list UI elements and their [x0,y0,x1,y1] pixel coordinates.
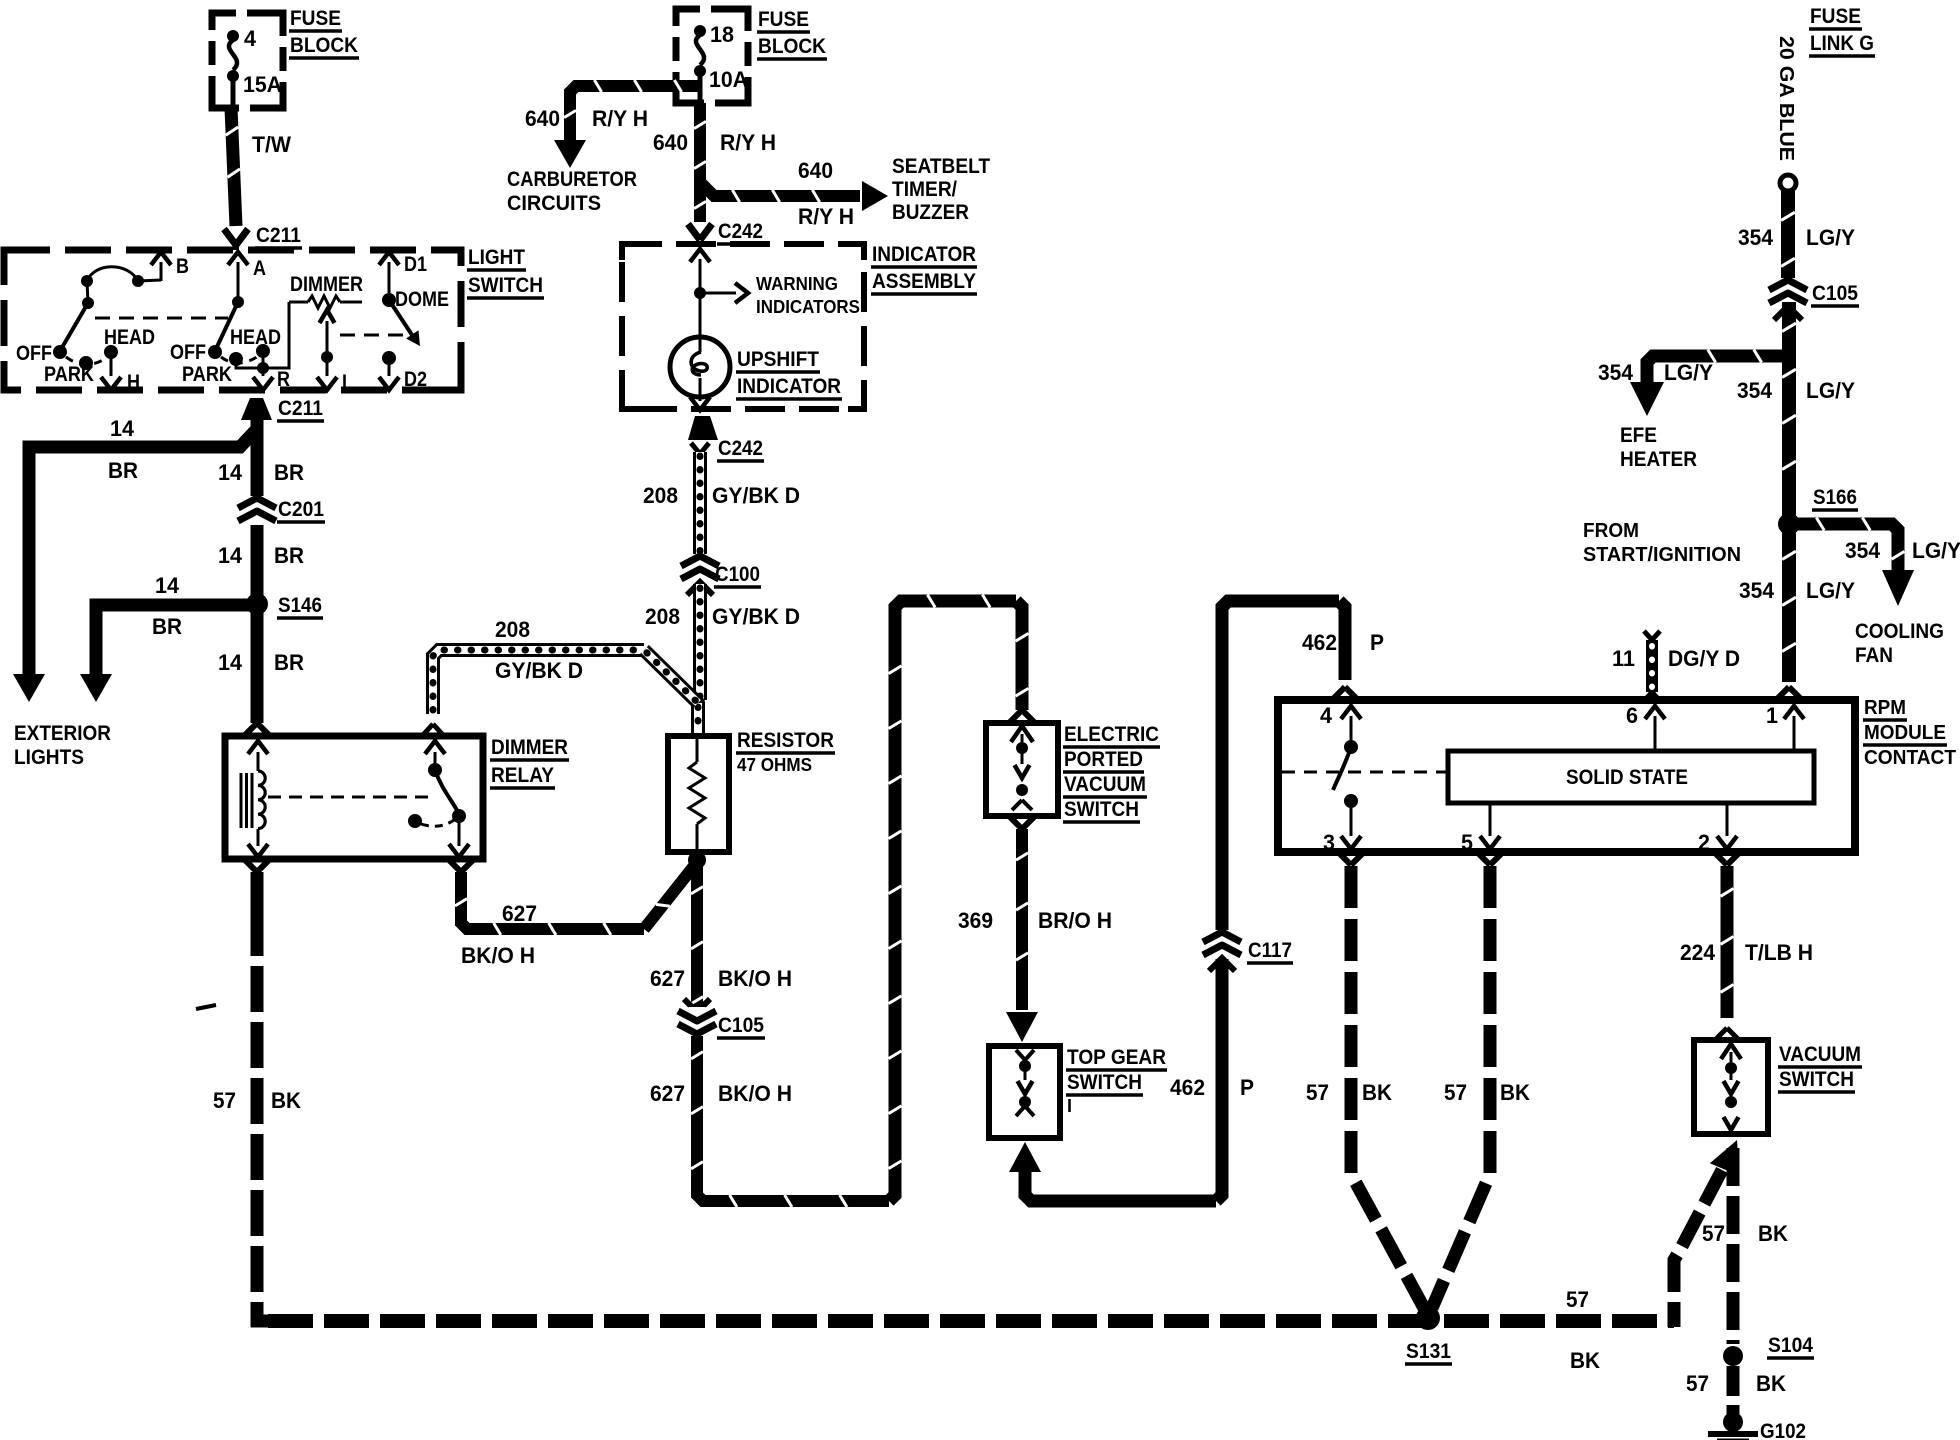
svg-text:C100: C100 [715,562,760,586]
contact HEAD 1 [104,345,118,359]
svg-text:LINK G: LINK G [1810,31,1874,55]
svg-text:GY/BK D: GY/BK D [712,483,800,508]
dashed contact arc 1 [66,357,108,365]
wire 57 BK pin5 [1432,866,1490,1308]
svg-text:BK: BK [1570,1348,1600,1373]
module pin 4 [1341,706,1361,719]
terminal B arrow [151,252,171,265]
electric ported vacuum switch (box) [986,723,1058,816]
module pin 1 [1784,706,1804,719]
svg-text:57: 57 [1444,1080,1467,1105]
wire 57 BK bottom run [251,1315,268,1328]
top gear switch (box) [989,1046,1060,1138]
wire 354 LG/Y lower [1782,530,1796,682]
module pin 3 [1350,801,1353,836]
svg-text:BK/O H: BK/O H [718,966,792,991]
junction at resistor bottom [688,851,706,869]
dimmer rheostat [289,301,308,304]
svg-text:627: 627 [502,901,537,926]
svg-text:6: 6 [1626,703,1638,728]
svg-text:FAN: FAN [1855,643,1893,667]
svg-text:LG/Y: LG/Y [1664,360,1713,385]
svg-text:BR: BR [274,650,304,675]
relay coil pin bottom [257,829,260,846]
relay switch pin top [425,741,445,754]
wire 208 GY/BK D branch [433,650,644,714]
svg-text:BLOCK: BLOCK [290,33,358,57]
svg-text:C211: C211 [278,396,323,420]
flare below module pin 2 [1715,853,1727,865]
fuse block 1 (dashed box) [212,13,283,108]
svg-text:BUZZER: BUZZER [892,200,969,224]
svg-text:INDICATOR: INDICATOR [737,374,841,398]
relay switch contact [452,809,466,823]
arrow below vacuum switch [1710,1140,1740,1176]
contact OFF 1 [53,345,67,359]
svg-text:VACUUM: VACUUM [1779,1042,1861,1066]
svg-text:DIMMER: DIMMER [491,735,568,759]
svg-text:C242: C242 [718,436,763,460]
svg-text:354: 354 [1738,225,1774,250]
svg-text:S104: S104 [1768,1333,1813,1357]
svg-text:11: 11 [1612,646,1635,671]
svg-text:FUSE: FUSE [290,6,341,30]
svg-text:LG/Y: LG/Y [1806,378,1855,403]
svg-text:57: 57 [1306,1080,1329,1105]
svg-text:BR/O H: BR/O H [1038,908,1112,933]
flare below module pin 3 [1339,853,1351,865]
svg-text:P: P [1240,1075,1254,1100]
light switch (dashed box) [4,250,461,390]
switch blade 1 [60,303,88,351]
svg-text:WARNING: WARNING [756,274,838,294]
svg-text:462: 462 [1170,1075,1205,1100]
flare below dimmer relay pin [245,860,257,872]
svg-text:208: 208 [643,483,678,508]
svg-text:T/W: T/W [252,132,291,157]
svg-text:ASSEMBLY: ASSEMBLY [872,269,976,293]
svg-text:PARK: PARK [182,363,232,386]
svg-text:C211: C211 [256,223,301,247]
svg-text:RESISTOR: RESISTOR [737,728,834,752]
contact HEAD 2 [256,344,270,358]
svg-text:P: P [1370,630,1384,655]
terminal A arrow [228,252,248,265]
svg-text:C242: C242 [718,219,763,243]
wire 627 to EPVS [889,601,1016,1201]
arrow EFE heater [1630,382,1664,416]
svg-text:SWITCH: SWITCH [468,273,543,297]
svg-text:BR: BR [108,458,138,483]
terminal D2 [382,351,396,365]
svg-text:LG/Y: LG/Y [1912,538,1960,563]
svg-text:15A: 15A [243,72,282,97]
module dashed link [1282,771,1448,774]
connector C100 [690,554,710,583]
branch to exterior lights 1 [29,430,256,676]
svg-text:FUSE: FUSE [758,7,809,31]
wire 462 P [1025,1168,1216,1201]
svg-text:3: 3 [1323,830,1335,855]
svg-text:S131: S131 [1406,1339,1451,1363]
svg-text:T/LB H: T/LB H [1745,940,1813,965]
module pin 6 [1645,706,1665,719]
svg-text:2: 2 [1698,830,1710,855]
arrow into top gear switch bottom [1009,1142,1041,1172]
wire 208 into resistor [691,703,705,733]
svg-text:208: 208 [495,617,530,642]
svg-text:R/Y H: R/Y H [798,204,854,229]
svg-text:462: 462 [1302,630,1337,655]
svg-text:14: 14 [218,650,243,675]
svg-text:14: 14 [218,460,243,485]
wire 354 LG/Y mid [1782,302,1796,518]
svg-text:14: 14 [218,543,243,568]
wire 640 branch carburetor [570,86,700,142]
svg-text:BK/O H: BK/O H [461,943,535,968]
svg-text:640: 640 [653,130,688,155]
module switch contact [1344,794,1358,808]
svg-text:BR: BR [274,543,304,568]
svg-text:MODULE: MODULE [1864,722,1946,744]
arrow cooling fan [1882,570,1914,606]
arrow exterior lights 1 [13,674,45,702]
svg-text:PORTED: PORTED [1064,747,1143,771]
fuse block 2 (dashed box) [676,9,748,103]
solid state (box) [1448,751,1814,803]
svg-text:14: 14 [110,416,135,441]
svg-text:FUSE: FUSE [1810,4,1861,28]
resistor (box) [668,736,729,852]
svg-text:14: 14 [155,573,180,598]
svg-text:354: 354 [1845,538,1881,563]
wire 208 GY/BK D lower [693,584,707,700]
svg-text:354: 354 [1737,378,1773,403]
wire 640 main [694,103,706,222]
flare into RPM module pin 1 [1777,687,1789,699]
switch blade 1 pivot [82,297,94,309]
svg-text:18: 18 [710,22,734,47]
splice S131 [1416,1306,1440,1330]
svg-text:TIMER/: TIMER/ [892,177,957,201]
park feed line to dimmer [236,302,289,368]
vacuum switch internals [1721,1044,1741,1059]
splice S104 [1723,1346,1743,1366]
flare into RPM module pin 4 [1333,687,1345,699]
svg-text:CONTACT: CONTACT [1864,747,1956,769]
connector C211 top [224,229,236,245]
branch cooling fan [1795,524,1898,570]
battery feed curve B1 [81,275,93,287]
flare top of 208 wire [691,443,700,454]
svg-text:4: 4 [244,26,257,51]
svg-text:HEAD: HEAD [104,326,155,349]
svg-text:57: 57 [1702,1221,1725,1246]
connector C105 on 627 [684,999,710,1012]
svg-text:BK: BK [1500,1080,1530,1105]
svg-text:BR: BR [152,614,182,639]
wire 354 LG/Y upper [1781,191,1795,280]
wire 11 DG/Y D [1646,640,1658,692]
svg-text:OFF: OFF [170,341,206,364]
svg-text:C105: C105 [718,1013,764,1037]
contact PARK 2 [229,352,243,366]
svg-text:UPSHIFT: UPSHIFT [737,347,819,371]
wire 208 GY/BK D upper [693,452,707,556]
svg-text:CARBURETOR: CARBURETOR [507,167,637,191]
svg-text:H: H [127,371,140,394]
svg-text:CIRCUITS: CIRCUITS [507,191,601,215]
svg-text:208: 208 [645,604,680,629]
svg-text:G102: G102 [1760,1419,1806,1440]
svg-text:ELECTRIC: ELECTRIC [1064,722,1159,746]
svg-text:FROM: FROM [1583,520,1639,542]
svg-text:20 GA BLUE: 20 GA BLUE [1775,36,1797,161]
svg-text:BK/O H: BK/O H [718,1081,792,1106]
relay contact dashed arc [421,820,454,826]
svg-text:SOLID STATE: SOLID STATE [1566,765,1688,789]
flare below module pin 5 [1478,853,1490,865]
lamp wire upper [699,293,702,352]
terminal I wiper [320,310,335,323]
svg-text:S146: S146 [278,593,322,617]
ground G102 [1723,1412,1743,1432]
EPVS internals [1011,726,1033,742]
wire 57 BK to S104 [1727,1148,1740,1344]
svg-text:I: I [1067,1096,1072,1116]
wire 57 BK diagonal [1674,1170,1722,1327]
svg-text:LIGHTS: LIGHTS [14,745,84,769]
svg-text:R: R [277,368,290,391]
svg-text:LIGHT: LIGHT [468,245,525,269]
wire 627 BK/O H down [697,860,889,1201]
flare below dimmer relay switch pin [449,860,461,872]
resistor element [696,736,699,762]
svg-text:BK: BK [1362,1080,1392,1105]
wire 977 T/W [231,108,236,226]
svg-text:C117: C117 [1248,938,1292,962]
fuse link terminal [1780,175,1796,191]
svg-text:354: 354 [1739,578,1775,603]
svg-text:1: 1 [1766,703,1778,728]
svg-text:BLOCK: BLOCK [758,34,826,58]
svg-text:369: 369 [958,908,993,933]
arrow exterior lights 2 [80,674,112,702]
svg-text:SWITCH: SWITCH [1067,1070,1142,1094]
rpm module (box) [1278,700,1855,852]
relay coil pin top [248,741,268,754]
stray mark [196,1005,216,1009]
terminal D1 arrow [379,252,399,265]
svg-text:57: 57 [213,1088,236,1113]
svg-text:LG/Y: LG/Y [1806,225,1855,250]
arrow seatbelt [862,181,888,211]
module pin 5 [1489,803,1492,836]
mechanical link dashed [95,317,228,320]
svg-text:TOP GEAR: TOP GEAR [1067,1045,1166,1069]
svg-text:EXTERIOR: EXTERIOR [14,721,111,745]
svg-text:BK: BK [271,1088,301,1113]
svg-text:PARK: PARK [44,363,94,386]
module switch pivot [1344,740,1358,754]
vacuum switch (box) [1694,1040,1768,1134]
svg-text:R/Y H: R/Y H [720,130,776,155]
flare into vacuum switch [1716,1028,1727,1039]
arrow carburetor [554,140,586,168]
fuse F4 15A symbol [227,30,239,42]
connector C242 bottom [688,416,718,440]
svg-text:C201: C201 [278,497,324,521]
svg-text:4: 4 [1320,703,1333,728]
contact DOME [382,293,396,307]
flare into EPVS [1010,710,1022,722]
svg-text:627: 627 [650,966,685,991]
svg-text:EFE: EFE [1620,423,1657,447]
splice S146 [246,593,268,615]
svg-text:57: 57 [1566,1287,1589,1312]
flare into dimmer relay switch pin [423,724,433,735]
svg-text:SWITCH: SWITCH [1779,1067,1854,1091]
svg-text:354: 354 [1598,360,1634,385]
svg-text:627: 627 [650,1081,685,1106]
connector C211 bottom [241,398,272,420]
svg-text:5: 5 [1461,830,1473,855]
fuse F18 10A symbol [694,25,706,37]
relay switch pivot [428,763,442,777]
svg-text:GY/BK D: GY/BK D [495,658,583,683]
wire 627 BK/O H riser [461,872,644,929]
connector C242 top [688,224,700,240]
wire 57 BK to ground [1727,1366,1740,1414]
branch to exterior lights 2 [96,605,251,676]
svg-text:47 OHMS: 47 OHMS [737,755,812,775]
module switch blade [1333,747,1351,790]
svg-text:10A: 10A [709,67,748,92]
splice S166 [1778,513,1800,535]
svg-text:DIMMER: DIMMER [290,273,363,296]
lamp wire lower [699,378,702,401]
module pin 2 [1726,803,1729,836]
svg-text:BR: BR [274,460,304,485]
svg-text:HEAD: HEAD [230,326,281,349]
svg-text:COOLING: COOLING [1855,619,1944,643]
svg-text:I: I [342,371,347,394]
wire 57 BK left vertical [251,872,264,910]
contact PARK 1 [79,356,93,370]
upshift indicator lamp [670,337,730,397]
wire 369 BR/O H [1016,829,1028,1010]
connector C117 [1214,930,1231,959]
terminal R [262,351,265,368]
flare below EPVS [1010,817,1022,829]
svg-text:R/Y H: R/Y H [592,106,648,131]
relay switch blade [435,770,459,814]
svg-text:VACUUM: VACUUM [1064,772,1146,796]
relay coil core [240,773,243,828]
svg-text:SEATBELT: SEATBELT [892,154,990,178]
connector C201 [249,496,266,525]
switch blade 2 [215,302,238,351]
contact OFF 2 [208,345,222,359]
wire 640 branch seatbelt [700,182,860,196]
dimmer relay (box) [225,736,483,859]
svg-text:RELAY: RELAY [491,763,554,787]
terminal H [110,352,113,376]
relay switch pin bottom [458,816,461,846]
top gear switch internals [1016,1050,1025,1060]
svg-text:D1: D1 [404,253,427,276]
svg-text:GY/BK D: GY/BK D [712,604,800,629]
svg-text:RPM: RPM [1864,697,1906,719]
svg-text:HEATER: HEATER [1620,447,1697,471]
svg-text:57: 57 [1686,1371,1709,1396]
indicator feed arrow [690,249,710,262]
branch EFE heater [1647,356,1783,382]
connector C105 right [1778,278,1798,307]
indicator assembly (dashed box) [622,244,864,409]
svg-text:OFF: OFF [16,342,52,365]
dome switch blade [389,300,414,338]
wire 224 T/LB H [1721,866,1734,1018]
junction 208 wires [691,696,705,710]
relay switch contact 2 [408,814,422,828]
wire 57 BK pin3 [1351,866,1424,1308]
svg-text:INDICATOR: INDICATOR [872,242,976,266]
svg-text:A: A [253,257,266,280]
svg-text:DG/Y D: DG/Y D [1668,646,1740,671]
svg-text:D2: D2 [404,368,427,391]
flare into dimmer relay pin1 [245,723,257,735]
svg-text:S166: S166 [1813,485,1857,509]
svg-text:640: 640 [525,106,560,131]
warning indicators tap [694,287,706,299]
svg-text:DOME: DOME [395,288,449,311]
wire 14 BR main [251,420,264,723]
svg-text:BK: BK [1756,1371,1786,1396]
svg-text:LG/Y: LG/Y [1806,578,1855,603]
svg-text:INDICATORS: INDICATORS [756,297,860,317]
svg-text:640: 640 [798,158,833,183]
arrow into top gear switch [1006,1012,1038,1042]
svg-text:START/IGNITION: START/IGNITION [1583,544,1741,566]
dashed contact arc 2 [221,355,260,363]
svg-text:224: 224 [1680,940,1716,965]
switch blade 2 pivot [232,296,244,308]
relay coil [258,771,265,829]
svg-text:SWITCH: SWITCH [1064,797,1139,821]
svg-text:B: B [176,255,189,278]
svg-text:C105: C105 [1812,281,1858,305]
svg-text:BK: BK [1758,1221,1788,1246]
dome dashed link [340,334,404,337]
relay dashed link [268,796,436,799]
